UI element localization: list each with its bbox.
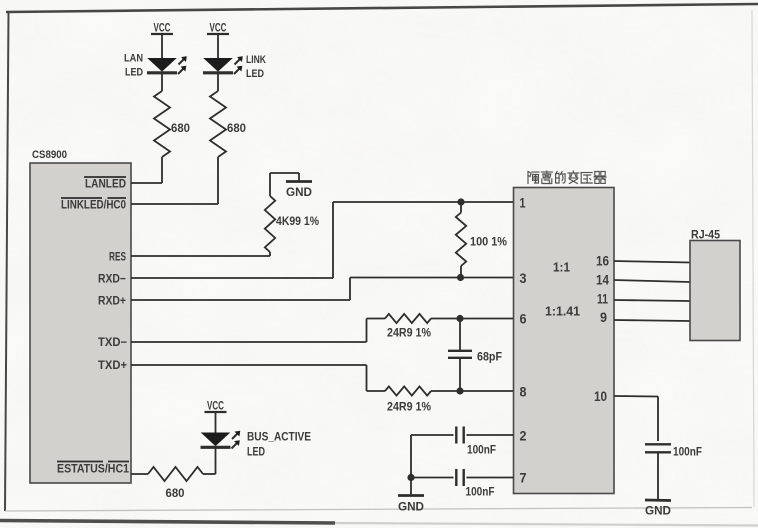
svg-text:100nF: 100nF: [673, 447, 702, 459]
svg-text:LANLED: LANLED: [85, 177, 126, 191]
svg-text:68pF: 68pF: [477, 352, 502, 364]
svg-text:11: 11: [597, 292, 608, 307]
svg-text:RJ-45: RJ-45: [691, 230, 721, 242]
svg-text:RES: RES: [109, 250, 126, 264]
svg-text:1:1: 1:1: [553, 261, 570, 275]
svg-text:TXD−: TXD−: [98, 335, 127, 349]
svg-text:100nF: 100nF: [466, 487, 495, 499]
svg-text:8: 8: [520, 385, 527, 400]
svg-text:7: 7: [520, 471, 527, 486]
svg-text:3: 3: [520, 271, 527, 286]
svg-text:24R9 1%: 24R9 1%: [387, 328, 431, 340]
svg-text:CS8900: CS8900: [32, 149, 67, 161]
svg-text:1: 1: [520, 196, 526, 211]
svg-text:10: 10: [594, 389, 607, 404]
svg-text:1:1.41: 1:1.41: [545, 305, 580, 319]
svg-text:TXD+: TXD+: [98, 358, 127, 372]
svg-text:6: 6: [520, 312, 527, 327]
svg-text:RXD−: RXD−: [98, 272, 126, 286]
svg-text:GND: GND: [398, 502, 424, 514]
svg-text:16: 16: [596, 254, 609, 269]
svg-text:LED: LED: [247, 447, 265, 459]
svg-text:100 1%: 100 1%: [470, 237, 507, 249]
svg-text:680: 680: [227, 123, 246, 135]
svg-text:LINK: LINK: [246, 54, 266, 66]
svg-text:VCC: VCC: [210, 23, 227, 35]
svg-text:LAN: LAN: [124, 53, 143, 65]
svg-text:BUS_ACTIVE: BUS_ACTIVE: [247, 432, 311, 444]
svg-text:LINKLED/HC0: LINKLED/HC0: [61, 198, 126, 212]
svg-text:ESTATUS/HC1: ESTATUS/HC1: [57, 462, 129, 476]
svg-text:VCC: VCC: [207, 401, 224, 413]
svg-text:RXD+: RXD+: [98, 294, 126, 308]
svg-text:LED: LED: [125, 67, 143, 79]
svg-text:680: 680: [166, 488, 185, 500]
svg-text:GND: GND: [645, 506, 671, 518]
svg-text:24R9 1%: 24R9 1%: [387, 402, 431, 414]
svg-text:LED: LED: [246, 68, 264, 80]
svg-text:680: 680: [171, 123, 190, 135]
svg-text:VCC: VCC: [154, 23, 171, 35]
svg-text:100nF: 100nF: [467, 445, 496, 457]
svg-text:GND: GND: [286, 187, 312, 199]
svg-text:14: 14: [596, 273, 609, 288]
svg-text:2: 2: [520, 429, 527, 444]
svg-text:9: 9: [600, 310, 607, 325]
svg-text:4K99 1%: 4K99 1%: [276, 216, 319, 228]
